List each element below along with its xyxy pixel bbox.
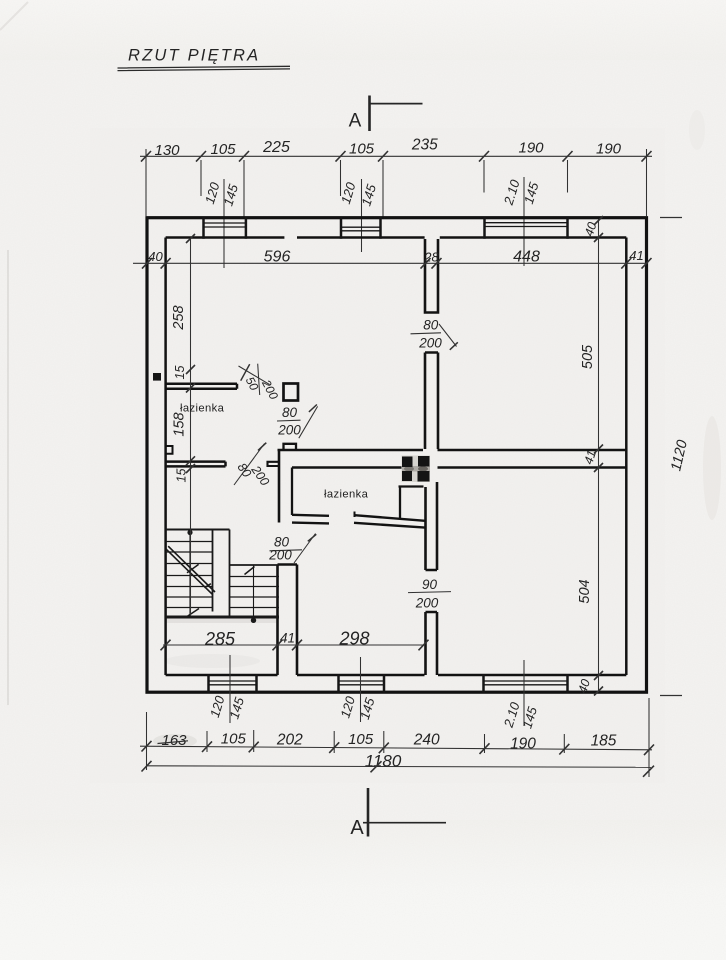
top dimension chain line	[140, 155, 652, 157]
svg-text:15: 15	[175, 469, 189, 483]
door label 80/200 central wall top	[411, 318, 458, 351]
walking line right slash	[245, 567, 255, 575]
dim line 285-298	[163, 644, 423, 646]
stairs bottom thick line	[166, 616, 280, 619]
bottom dimension chain line	[140, 746, 652, 750]
section mark A top horizontal	[370, 103, 423, 105]
bottom chain ticks	[142, 741, 655, 755]
gray wash under 163	[153, 734, 197, 748]
flue block black squares	[402, 456, 430, 482]
bottom chain numbers	[161, 731, 616, 753]
window B2 bottom jambs	[339, 674, 385, 693]
svg-text:202: 202	[276, 732, 303, 749]
inner wall line top	[166, 236, 627, 239]
title underline double	[118, 66, 291, 70]
window W3 top jambs	[485, 217, 568, 239]
window B2 glazing	[339, 681, 385, 685]
inner wall line bottom	[166, 674, 627, 677]
right reference dash bottom	[660, 695, 682, 697]
top chain numbers	[154, 137, 621, 160]
svg-text:A: A	[350, 817, 364, 839]
svg-text:200: 200	[415, 596, 439, 611]
door label 80/200 stair east door	[268, 534, 316, 564]
svg-text:41: 41	[280, 631, 295, 646]
svg-text:90: 90	[422, 577, 438, 592]
stairs right flight treads	[230, 577, 280, 608]
svg-text:185: 185	[591, 733, 617, 750]
svg-text:łazienka: łazienka	[324, 489, 369, 501]
flue shaft left line	[399, 487, 401, 520]
svg-text:190: 190	[596, 141, 622, 158]
central vertical wall upper segment 2 (below door 80)	[425, 353, 438, 450]
svg-text:40: 40	[148, 249, 163, 264]
central horizontal wall bottom line	[292, 466, 626, 469]
svg-text:105: 105	[349, 141, 375, 158]
svg-text:298: 298	[338, 629, 369, 649]
gray wash below stair bottom	[166, 619, 278, 624]
rotated window labels top	[202, 177, 542, 208]
central horizontal wall top line	[278, 449, 627, 452]
svg-text:190: 190	[510, 736, 536, 753]
left wall notch at stair hall door	[166, 446, 173, 454]
walking line right end dot	[251, 618, 256, 623]
svg-text:448: 448	[513, 249, 540, 266]
bathroom2 bottom wall bottom line	[292, 523, 425, 528]
ticks on left vertical dim	[186, 234, 195, 473]
central vertical wall upper segment 1	[425, 239, 438, 313]
flue shaft bottom edge	[399, 485, 424, 487]
pilaster bump on central wall	[284, 444, 297, 450]
right interior vertical dim line	[598, 219, 600, 692]
ticks on 285 line	[161, 640, 429, 651]
top chain ticks	[141, 151, 652, 162]
svg-text:41: 41	[629, 248, 643, 263]
window centre lines top	[224, 177, 524, 268]
bathroom2 bottom wall jog	[354, 512, 356, 518]
svg-text:596: 596	[264, 249, 291, 266]
svg-text:200: 200	[268, 548, 292, 563]
right margin smudge	[703, 416, 721, 520]
svg-text:130: 130	[154, 142, 180, 159]
ticks on right vertical dim	[594, 216, 603, 696]
outer wall rectangle	[147, 218, 647, 693]
stair well verticals	[213, 530, 230, 617]
svg-text:200: 200	[418, 336, 442, 351]
svg-text:190: 190	[518, 140, 544, 157]
door label 90/200 central wall lower	[408, 577, 451, 611]
svg-text:158: 158	[172, 412, 188, 436]
svg-text:105: 105	[210, 141, 236, 158]
window W2 top jambs	[341, 217, 381, 239]
walking line left flight	[189, 533, 191, 617]
door label 50/200 diagonal	[239, 364, 282, 402]
window B3 bottom jambs	[484, 674, 568, 693]
window B3 glazing	[484, 681, 568, 685]
svg-text:258: 258	[171, 305, 187, 330]
svg-text:240: 240	[413, 732, 440, 749]
window centre lines bottom	[230, 655, 524, 726]
corridor lower stub wall	[166, 462, 226, 467]
svg-text:80: 80	[423, 318, 439, 333]
bathroom2 left wall outer line	[278, 450, 281, 523]
bottom extension lines	[147, 698, 650, 777]
rotated window labels bottom	[207, 693, 540, 730]
svg-text:105: 105	[348, 731, 374, 748]
svg-text:285: 285	[204, 629, 236, 649]
svg-text:80: 80	[282, 405, 298, 420]
top-left crease	[0, 2, 28, 30]
svg-text:105: 105	[221, 731, 247, 748]
black flue square on left wall	[153, 373, 161, 381]
ticks on 596 line	[142, 258, 652, 269]
door label 80/200 rotated (bathroom1 door)	[234, 443, 272, 489]
walking line left start dot	[187, 530, 192, 535]
window W3 glazing	[485, 223, 568, 227]
section mark A bottom vertical	[367, 788, 370, 837]
svg-text:200: 200	[277, 423, 301, 438]
overall dimension line 1180	[146, 766, 651, 768]
bathroom2 bottom wall top line	[292, 515, 425, 521]
svg-text:163: 163	[161, 732, 187, 749]
window W1 glazing	[204, 223, 246, 227]
gray wash stair hall	[164, 654, 260, 668]
walking line right flight	[253, 566, 255, 621]
ticks on overall line	[142, 761, 655, 777]
section mark A bottom horizontal	[363, 822, 446, 824]
flue block smudge	[402, 456, 431, 483]
strike through 163	[158, 741, 189, 744]
svg-text:łazienka: łazienka	[180, 403, 225, 415]
svg-text:A: A	[349, 111, 362, 132]
stair hall south wall	[278, 565, 298, 676]
window W2 glazing	[341, 227, 381, 231]
central vertical wall lower segment 2 (below door 90)	[426, 612, 438, 675]
window B1 bottom jambs	[209, 674, 257, 693]
left interior vertical dim line	[190, 238, 192, 617]
stair break double diagonal	[166, 546, 215, 594]
door stub west of bathroom2	[268, 462, 280, 466]
walking line left end slash	[187, 609, 199, 617]
diagonal tick 1	[187, 564, 199, 572]
bathroom2 left wall inner line	[291, 468, 293, 516]
svg-text:504: 504	[577, 579, 593, 603]
window W1 top jambs	[204, 217, 246, 239]
stairs right flight top	[230, 564, 280, 566]
top extension lines	[146, 149, 647, 217]
svg-text:225: 225	[262, 139, 290, 156]
stairs left flight treads	[166, 542, 213, 608]
svg-text:RZUT PIĘTRA: RZUT PIĘTRA	[128, 47, 260, 65]
right reference dash top	[660, 217, 682, 219]
svg-text:235: 235	[411, 137, 438, 154]
door label 80/200 fraction upper	[277, 405, 318, 439]
inner wall line left	[164, 238, 167, 676]
inner wall line right	[625, 238, 628, 676]
interior dim line 596-448	[133, 262, 648, 264]
central vertical wall lower segment 1	[426, 482, 438, 570]
window B1 glazing	[209, 681, 257, 685]
svg-text:1180: 1180	[365, 752, 402, 771]
svg-text:505: 505	[580, 344, 596, 369]
svg-text:28: 28	[423, 250, 439, 265]
svg-text:15: 15	[173, 366, 187, 380]
section mark A top vertical	[368, 96, 371, 132]
diagonal tick 2	[204, 584, 211, 588]
corridor upper stub wall	[167, 384, 238, 389]
plan area paper tint	[90, 128, 665, 783]
stairs top boundary	[166, 529, 230, 531]
left edge scan streak	[7, 250, 9, 705]
chimney square open	[284, 384, 299, 401]
